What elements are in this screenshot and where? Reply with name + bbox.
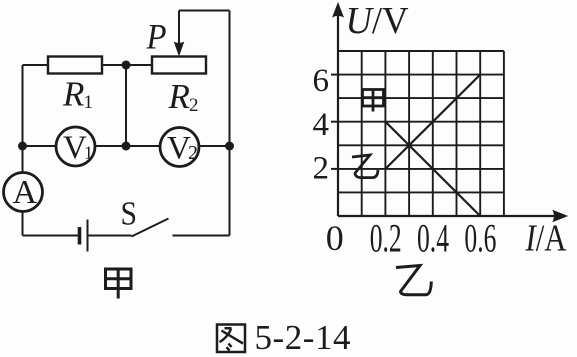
y axis U — [337, 12, 339, 216]
wiper arrowhead P — [174, 42, 185, 57]
wire right vertical — [229, 11, 231, 236]
label jia (circuit) — [106, 268, 132, 299]
junction node right — [225, 142, 234, 151]
line jia (rising U=10I) — [385, 75, 480, 169]
caption glyph tu — [217, 325, 245, 353]
svg-text:A: A — [13, 174, 38, 211]
x axis I — [338, 215, 560, 217]
label yi (on chart) — [352, 155, 378, 178]
svg-text:0.4: 0.4 — [417, 216, 449, 261]
label yi (below chart) — [396, 266, 431, 295]
svg-text:2: 2 — [189, 95, 199, 116]
wire R1 to R2 — [102, 64, 152, 66]
wire wiper vertical — [178, 11, 180, 45]
svg-text:5-2-14: 5-2-14 — [255, 318, 351, 357]
voltmeter V2 — [160, 128, 199, 167]
svg-text:2: 2 — [313, 151, 330, 187]
svg-text:1: 1 — [84, 92, 94, 113]
tick y=6 — [331, 74, 338, 76]
junction node centre — [122, 142, 131, 151]
wire top horizontal — [179, 10, 230, 12]
junction node top — [122, 61, 131, 70]
svg-text:R: R — [62, 75, 84, 114]
svg-text:1: 1 — [84, 143, 93, 163]
svg-text:S: S — [121, 196, 138, 233]
x axis arrowhead — [552, 210, 568, 223]
y axis arrowhead — [332, 2, 344, 18]
tick y=4 — [331, 121, 338, 123]
wire between V1 and V2 — [95, 145, 160, 147]
wire left vertical — [22, 65, 24, 173]
svg-text:0: 0 — [326, 218, 344, 258]
grid — [338, 51, 504, 216]
wire below ammeter — [22, 212, 24, 236]
wire voltmeter row left — [23, 145, 57, 147]
svg-text:6: 6 — [313, 63, 330, 99]
resistor R2 (rheostat) — [152, 57, 206, 74]
wire centre vertical — [125, 65, 127, 146]
wire switch to bottom right — [173, 235, 230, 237]
svg-text:P: P — [146, 17, 167, 57]
svg-text:I/A: I/A — [525, 218, 567, 260]
label jia (on chart) — [363, 89, 384, 112]
svg-text:4: 4 — [313, 107, 330, 143]
junction node left — [18, 142, 27, 151]
battery negative plate (short) — [78, 227, 82, 245]
svg-text:2: 2 — [188, 142, 198, 164]
voltmeter V1 — [56, 127, 95, 166]
svg-text:0.2: 0.2 — [370, 216, 402, 261]
wire top-left horizontal — [23, 64, 49, 66]
svg-text:0.6: 0.6 — [464, 216, 496, 261]
resistor R1 — [48, 57, 102, 74]
tick y=2 — [331, 168, 338, 170]
wire bottom left — [23, 235, 80, 237]
wire V2 to right vertical — [199, 145, 230, 147]
switch S blade — [132, 219, 169, 237]
svg-text:R: R — [168, 77, 190, 116]
line yi (falling U=6-10I) — [385, 122, 480, 216]
battery positive plate (long) — [87, 220, 89, 252]
wire battery to switch — [89, 235, 132, 237]
svg-text:U/V: U/V — [346, 0, 410, 42]
ammeter A — [4, 173, 43, 212]
